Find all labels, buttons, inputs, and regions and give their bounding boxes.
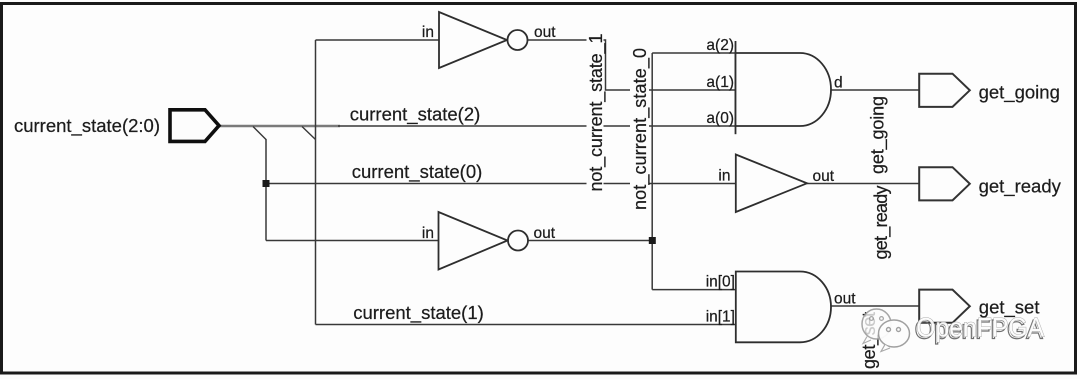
svg-text:in[0]: in[0] (706, 274, 735, 291)
svg-text:d: d (834, 75, 843, 92)
svg-text:out: out (813, 168, 835, 185)
white halo behind net name not_current_state_0 (630, 47, 649, 211)
junction dot current_state(0) (263, 180, 270, 187)
svg-text:current_state(0): current_state(0) (352, 161, 483, 183)
svg-text:a(1): a(1) (706, 74, 734, 91)
svg-text:get_ready: get_ready (871, 186, 892, 260)
input port current_state(2:0) (170, 110, 219, 142)
svg-text:current_state(2): current_state(2) (350, 104, 481, 126)
wire vertical current_state(1) (315, 40, 317, 325)
svg-text:not_current_state_0: not_current_state_0 (630, 48, 651, 210)
inverter top (not_current_state_1) (439, 12, 507, 68)
white halo behind net name not_current_state_1 (587, 32, 604, 192)
bus wire current_state(2:0) (218, 125, 340, 127)
svg-text:get_ready: get_ready (979, 175, 1062, 197)
svg-text:a(2): a(2) (706, 37, 734, 54)
svg-text:get_going: get_going (868, 96, 889, 174)
svg-text:current_state(2:0): current_state(2:0) (14, 115, 160, 137)
svg-text:current_state(1): current_state(1) (353, 302, 484, 324)
svg-text:in: in (422, 225, 434, 242)
svg-text:in: in (422, 24, 434, 41)
svg-text:get_going: get_going (979, 81, 1060, 103)
output port get_going (919, 74, 970, 107)
wire current_state(1) to top inverter in (316, 39, 440, 41)
wire not_current_state_1 from inverter out to a(1) (528, 40, 736, 90)
and gate get_set (736, 272, 831, 343)
output port get_set (919, 290, 970, 323)
wire not_current_state_0 to in[0] (652, 289, 736, 291)
wire out to get_set port (831, 305, 919, 307)
svg-text:in[1]: in[1] (706, 308, 735, 325)
output port get_ready (919, 167, 970, 200)
wire d to get_going port (831, 89, 919, 91)
and gate get_going (735, 41, 737, 134)
bus tap slash to current_state(0) (253, 127, 266, 140)
bus tap slash to current_state(1) (302, 127, 316, 140)
svg-text:not_current_state_1: not_current_state_1 (586, 34, 607, 192)
wire net not_current_state_0 vertical (651, 53, 653, 290)
wire current_state(2) to a(0) (338, 125, 736, 127)
svg-text:a(0): a(0) (706, 110, 734, 127)
wire not_current_state_0 to a(2) (652, 52, 735, 54)
svg-text:in: in (718, 168, 730, 185)
svg-text:out: out (834, 291, 856, 308)
wire bottom inverter out (527, 240, 652, 242)
wire current_state(0) to buffer in (266, 183, 736, 185)
wire current_state(0) to inverter in (266, 240, 439, 242)
wire current_state(1) to in[1] (316, 324, 736, 326)
buffer get_ready (736, 155, 807, 213)
wire vertical current_state(0) (265, 139, 267, 241)
svg-text:out: out (534, 24, 556, 41)
junction dot not_current_state_0 (649, 237, 656, 244)
svg-text:OpenFPGA: OpenFPGA (916, 313, 1044, 343)
inverter bottom (not_current_state_0) (439, 212, 508, 270)
svg-text:out: out (534, 225, 556, 242)
wire buffer out to get_ready port (807, 183, 919, 185)
